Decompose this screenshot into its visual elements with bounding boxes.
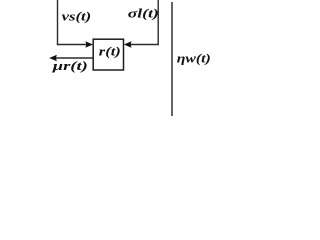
svg-text:r(t): r(t) [99,43,121,58]
svg-text:vs(t): vs(t) [62,8,92,23]
svg-text:ηw(t): ηw(t) [177,50,211,65]
svg-text:σl(t): σl(t) [128,6,159,21]
svg-text:μr(t): μr(t) [51,58,87,73]
